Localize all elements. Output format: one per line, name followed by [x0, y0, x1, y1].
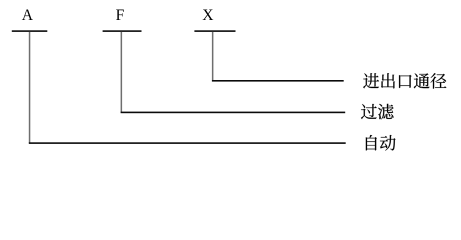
- tick bar under letter A: [12, 30, 48, 32]
- label 自动 (automatic), row 3: [366, 135, 396, 151]
- svg-text:F: F: [116, 7, 125, 24]
- tick bar under letter F: [103, 30, 142, 32]
- leader line horizontal segment to 过滤: [121, 112, 346, 114]
- leader line vertical segment from F: [121, 32, 123, 112]
- leader line horizontal segment to 进出口通径: [212, 80, 344, 82]
- leader line vertical segment from X: [212, 32, 214, 80]
- leader line vertical segment from A: [29, 32, 31, 143]
- svg-text:X: X: [202, 7, 213, 24]
- tick bar under letter X: [194, 30, 235, 32]
- label 过滤 (filter), row 2: [361, 104, 394, 119]
- label 进出口通径 (inlet/outlet bore), row 1: [363, 73, 446, 88]
- svg-text:A: A: [22, 7, 34, 24]
- leader line horizontal segment to 自动: [29, 142, 346, 144]
